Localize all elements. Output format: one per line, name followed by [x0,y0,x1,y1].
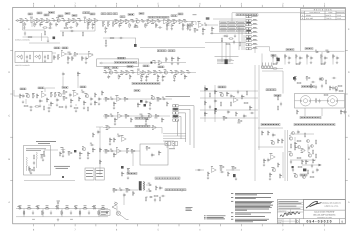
resistor R184 [305,159,308,164]
resistor R67 [177,57,180,62]
capacitor C62 [214,99,217,103]
wire [16,208,108,210]
capacitor C52 [98,97,102,101]
jack J2 [17,56,21,58]
transistor Q8 [151,95,155,99]
resistor R71 [129,74,131,79]
ground [39,104,41,107]
text T13 [186,208,193,211]
capacitor C39 [114,71,119,74]
capacitor C7 [92,22,95,26]
capacitor C75 [315,85,317,89]
label LBL22 [286,49,294,51]
wire [79,209,81,217]
ground [173,79,175,82]
resistor R38 [193,28,198,32]
resistor R177 [277,162,279,167]
resistor R17 [125,20,130,24]
resistor R211 [125,188,130,192]
coil L2 [36,152,39,159]
pedal box 2 [95,168,104,180]
resistor R194 [315,139,316,144]
resistor R25 [172,20,177,24]
zone letters [8,28,350,204]
diode CR2 [325,50,329,53]
capacitor C85 [110,149,114,152]
svg-text:D: D [348,71,350,74]
diode CR10 [149,196,153,198]
label [46,206,48,208]
label LBL4 [28,13,33,15]
capacitor C17 [24,31,26,35]
ground [226,34,228,37]
wire [44,88,46,92]
label LBL50 [155,177,180,179]
label LBL19 [164,16,169,18]
op-amp U3 [163,18,168,24]
resistor R61 [71,56,74,61]
resistor R97 [73,107,78,108]
transistor Q6 [58,92,62,96]
resistor R122 [235,111,237,116]
label LBL33 [112,67,118,69]
resistor R154 [92,132,94,137]
label LBL41 [134,90,140,92]
node N18 [139,181,141,190]
svg-text:DATE: DATE [278,222,281,224]
op-amp U2 [84,17,90,23]
node N5 [277,58,280,61]
wire [123,195,125,205]
label LBL10 [171,15,177,17]
resistor R7 [50,22,53,27]
label LBL42 [135,117,149,119]
resistor R193 [309,176,314,177]
resistor R118 [214,109,216,114]
capacitor C93 [308,146,310,150]
node N7 [140,100,143,103]
resistor R24 [167,20,172,24]
capacitor C4 [55,22,58,26]
resistor R114 [204,86,207,91]
resistor R66 [171,57,174,62]
resistor R158 [105,126,110,130]
resistor R23 [166,23,169,28]
wire [163,135,186,137]
capacitor C74 [332,86,334,90]
resistor R53 [320,63,325,64]
label LBL26 [62,47,68,49]
wire [213,18,246,20]
resistor R80 [184,74,187,79]
resistor R102 [123,97,128,101]
ground [310,61,312,64]
resistor R100 [104,97,109,101]
node N14 [121,166,124,169]
capacitor C96 [32,211,34,215]
resistor R30 [62,31,63,36]
connector blob2 [173,108,178,110]
capacitor C107 [159,186,163,190]
wire [238,26,240,50]
transistor Q21 [294,173,298,177]
resistor R209 [159,196,160,201]
wire [31,21,33,28]
capacitor C10 [130,20,135,23]
wire [195,169,204,171]
resistor R187 [296,140,301,141]
wire [103,72,196,74]
connector blob [246,22,251,23]
wire [98,209,100,217]
capacitor C100 [106,211,108,215]
wire [282,152,284,178]
wire [282,71,284,94]
resistor R65 [165,57,167,62]
resistor R83 [46,97,49,102]
svg-text:REVISIONS: REVISIONS [314,9,333,12]
label LBL43 [218,86,226,88]
capacitor C77 [321,84,323,88]
potentiometer VR5 [57,55,60,60]
resistor R164 [130,149,135,153]
wire [269,47,271,51]
wire [186,21,196,23]
wire [116,206,118,211]
text T17 [217,59,234,63]
capacitor C71 [335,88,338,92]
capacitor C31 [336,56,339,60]
ground [171,27,173,30]
resistor R94 [34,106,39,107]
node N6 [150,62,152,64]
resistor R31 [82,31,83,36]
wire [295,100,301,102]
resistor R8 [66,22,69,27]
wire [254,47,256,53]
transistor Q17 [271,167,275,171]
resistor R181 [294,145,297,150]
capacitor C19 [48,27,52,29]
notes text 2 [204,216,226,219]
ground [109,142,111,145]
ground [263,163,265,166]
svg-text:B: B [342,221,344,224]
label [66,205,69,207]
wire [287,130,289,181]
transistor Q2 [136,19,140,23]
wire [321,52,323,64]
resistor R124 [237,119,242,123]
resistor R121 [249,105,252,110]
wire [258,65,260,150]
resistor R51 [306,54,309,59]
op-amp U10 [115,96,121,102]
resistor R37 [189,23,191,28]
resistor R171 [231,166,236,170]
label LBL23 [305,48,313,50]
resistor R137 [325,79,326,84]
capacitor C53 [29,106,33,108]
node N8 [144,104,147,107]
wire [79,53,93,55]
resistor R203 [82,208,87,209]
wire [22,21,24,31]
transistor Q18 [289,136,293,140]
capacitor C69 [280,102,282,106]
jack J3 [35,56,39,58]
ground [62,154,64,157]
ground [324,61,326,64]
resistor R173 [267,130,269,135]
resistor R129 [243,102,248,103]
resistor R92 [101,90,104,95]
transistor Q16 [271,140,275,144]
wire [23,29,46,31]
wire [41,33,43,41]
capacitor C42 [158,71,162,74]
drawing number row [296,219,344,224]
capacitor C54 [47,107,51,109]
zone ticks sides [10,51,348,181]
capacitor C47 [39,99,43,103]
wire [258,127,283,129]
resistor R85 [62,90,67,94]
capacitor C21 [158,26,162,28]
ground [177,62,179,65]
resistor R32 [42,27,47,28]
resistor R182 [300,149,305,153]
capacitor C46 [22,94,25,98]
capacitor C99 [88,211,90,215]
ground [30,108,32,111]
title block frame [277,200,345,224]
resistor R141 [338,90,343,91]
svg-text:C: C [348,115,350,118]
capacitor C13 [157,20,161,23]
label [57,200,61,202]
capacitor C32 [26,55,28,59]
capacitor C95 [311,164,313,168]
resistor R127 [230,101,231,106]
wire [16,20,187,22]
resistor R126 [220,101,221,106]
wire [57,206,59,209]
resistor R33 [63,27,68,28]
svg-text:ISSUE: ISSUE [278,220,282,222]
wire [24,180,75,182]
label LBL44 [266,89,276,91]
capacitor C40 [130,71,135,74]
wire [44,149,58,151]
wire [135,38,137,44]
capacitor C67 [237,90,239,94]
resistor R57 [39,54,40,59]
transistor Q1 [56,18,60,22]
capacitor C14 [171,23,174,27]
label [19,206,21,208]
resistor R69 [120,71,125,75]
ground [162,78,164,81]
relay contacts K1 [165,142,178,146]
text T4 [278,208,300,210]
wire [36,159,38,168]
capacitor C11 [134,23,138,27]
resistor R76 [157,74,160,79]
wire [163,140,174,142]
resistor R44 [225,43,230,44]
resistor R198 [41,210,42,215]
resistor R176 [263,158,266,163]
label LBL45 [274,95,281,97]
wire [262,68,283,70]
potentiometer VR4 [191,22,194,27]
resistor R196 [23,210,24,215]
resistor R58 [47,54,48,59]
capacitor C56 [62,72,65,76]
resistor R89 [83,100,86,105]
resistor R139 [310,83,311,88]
potentiometer VR3 [112,22,115,27]
label LBL6 [58,15,63,17]
label LBL5 [49,12,55,14]
label [19,205,22,207]
wire [140,46,205,48]
resistor R29 [44,30,45,35]
resistor R161 [113,137,116,142]
capacitor C44 [170,71,174,74]
plug blades [114,202,118,205]
ground [92,26,94,29]
capacitor C89 [267,158,270,162]
capacitor C79 [33,161,35,165]
label [93,206,95,208]
potentiometer VR10 [126,148,129,153]
resistor R165 [158,150,161,155]
wire [221,40,223,62]
label LBL15 [72,15,77,17]
wire [77,77,79,89]
resistor R21 [151,20,156,24]
resistor R183 [301,159,303,164]
ground [44,59,46,62]
ground [299,61,301,64]
capacitor C104 [61,211,63,215]
label [28,205,31,207]
capacitor C2 [39,22,43,26]
wire [173,146,175,149]
resistor R18 [129,23,131,28]
wire [295,59,297,65]
wire [284,59,286,65]
capacitor C76 [318,99,320,103]
potentiometer VR2 [107,22,110,27]
resistor R146 [28,166,29,171]
wire [304,108,306,116]
label LBL47 [300,116,321,118]
diode CR9 [148,189,152,192]
wire [103,37,136,39]
input box [15,52,52,63]
resistor R162 [104,149,109,153]
resistor R75 [153,71,158,75]
label LBL27 [115,61,137,63]
text T3 [278,205,296,207]
capacitor C5 [62,19,67,22]
resistor R131 [277,105,278,110]
capacitor C98 [70,211,72,215]
op-amp U13 [120,136,126,142]
capacitor C86 [151,153,155,157]
op-amp U11 [117,113,122,119]
resistor R86 [62,96,67,100]
ground [187,27,189,30]
capacitor C36 [152,61,157,64]
resistor R149 [40,154,45,158]
transistor Q24 [298,146,301,149]
wire [311,100,328,102]
node N2 [134,44,137,47]
resistor R42 [228,38,233,39]
label LBL29 [157,50,166,52]
wire [14,95,20,97]
wire [294,137,296,141]
label output jacks [166,95,191,97]
resistor R47 [272,63,277,64]
label LBL17 [120,16,125,18]
resistor R64 [157,61,162,65]
ground [70,104,72,107]
ground [149,107,151,110]
resistor R172 [261,130,264,135]
resistor R107 [104,114,109,118]
ground [87,156,89,159]
signature 2 [284,212,294,214]
label LBL2 [107,13,112,15]
resistor R132 [272,68,277,69]
resistor R155 [92,147,95,152]
label LBL21 [236,14,258,16]
ground [202,32,204,35]
resistor R180 [294,141,297,146]
label LBL32 [104,67,110,69]
resistor R74 [147,71,152,75]
capacitor C25 [233,40,235,44]
text T16 [215,56,239,58]
resistor R123 [222,116,227,120]
capacitor C68 [250,112,254,114]
resistor R10 [72,19,77,23]
ground [211,31,213,34]
label [46,205,49,207]
capacitor C48 [56,98,59,102]
capacitor C23 [204,23,208,26]
resistor R6 [45,19,50,23]
wire [47,37,49,40]
capacitor C6 [77,19,82,22]
label LBL38 [38,87,44,89]
label LBL51 [261,123,280,125]
capacitor C64 [227,110,230,114]
resistor R11 [76,22,78,27]
resistor R28 [27,36,32,37]
resistor R115 [204,100,206,105]
jack J4 [99,62,103,64]
capacitor C57 [110,97,114,100]
wire [23,36,49,38]
resistor R135 [323,94,328,95]
resistor R159 [151,126,156,130]
